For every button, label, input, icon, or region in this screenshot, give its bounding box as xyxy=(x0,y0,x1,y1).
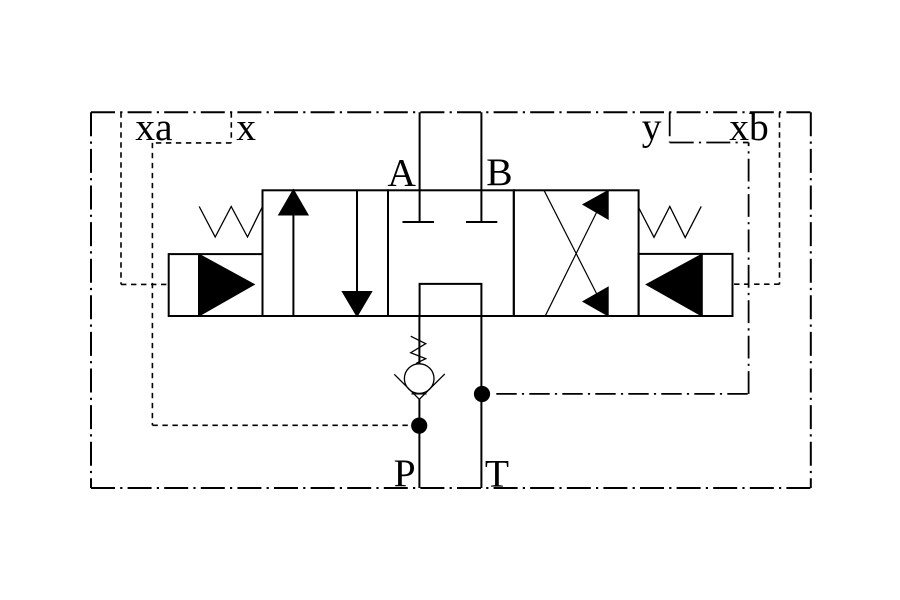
enclosure border left xyxy=(90,112,92,488)
T line xyxy=(480,316,482,488)
port B blocked bar xyxy=(466,221,497,223)
svg-text:x: x xyxy=(236,105,256,149)
pilot line xb horizontal xyxy=(733,283,780,285)
check valve seat right xyxy=(419,374,445,399)
pilot line xa horizontal xyxy=(121,283,169,285)
valve position box 2 (center) xyxy=(388,190,514,316)
svg-text:A: A xyxy=(387,150,416,194)
port A line xyxy=(419,112,421,221)
junction dot P-x xyxy=(411,418,427,434)
valve position box 3 xyxy=(514,190,639,316)
pilot actuator triangle left xyxy=(199,255,253,316)
box3 diagonal A-T xyxy=(545,213,596,316)
center bottom channel box xyxy=(420,284,482,316)
drain line y vertical xyxy=(748,143,750,394)
box3 arrowhead lower xyxy=(584,288,608,315)
pilot actuator box left xyxy=(169,254,263,316)
check valve seat left xyxy=(394,374,419,399)
check valve spring xyxy=(411,336,426,363)
pilot line x to P junction xyxy=(152,424,413,426)
svg-text:T: T xyxy=(485,451,509,495)
box1 down arrowhead xyxy=(343,292,371,316)
svg-text:xb: xb xyxy=(729,105,769,149)
pilot line xb vertical xyxy=(779,112,781,284)
pilot actuator triangle right xyxy=(647,255,702,316)
enclosure border bottom xyxy=(91,487,811,489)
box1 up arrowhead xyxy=(280,191,308,215)
check valve ball xyxy=(404,364,434,394)
port B line xyxy=(480,112,482,221)
svg-text:P: P xyxy=(394,451,416,495)
P line lower xyxy=(418,399,420,488)
enclosure border top xyxy=(91,111,811,113)
pilot line x drop xyxy=(230,112,232,143)
pilot spring left xyxy=(199,207,262,238)
svg-text:xa: xa xyxy=(135,105,172,149)
box3 arrowhead upper xyxy=(584,191,608,218)
junction dot T-y xyxy=(474,386,490,402)
pilot line x horizontal top xyxy=(152,142,231,144)
valve position box 1 xyxy=(263,190,389,316)
port A blocked bar xyxy=(403,221,435,223)
pilot spring right xyxy=(639,206,702,237)
svg-text:B: B xyxy=(486,150,512,194)
P line upper xyxy=(418,316,420,364)
box1 up-flow line xyxy=(292,212,294,316)
drain line y horizontal top xyxy=(670,142,749,144)
drain line y to T junction xyxy=(496,393,748,395)
pilot actuator box right xyxy=(639,254,733,316)
box1 down-flow line xyxy=(356,190,358,294)
pilot line x vertical long xyxy=(151,143,153,425)
check valve seat chord xyxy=(412,393,427,395)
svg-text:y: y xyxy=(642,105,662,149)
box3 diagonal P-B xyxy=(544,190,597,293)
enclosure border right xyxy=(810,112,812,488)
pilot line xa vertical xyxy=(120,112,122,284)
drain line y drop xyxy=(669,112,671,142)
